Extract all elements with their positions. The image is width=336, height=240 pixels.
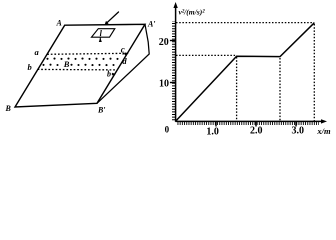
svg-text:B′: B′ [97, 105, 106, 114]
svg-text:A′: A′ [147, 19, 156, 28]
svg-text:x/m: x/m [316, 126, 331, 136]
svg-text:v²/(m/s)²: v²/(m/s)² [179, 8, 206, 17]
svg-text:b: b [28, 62, 32, 72]
svg-text:B: B [63, 59, 70, 69]
svg-text:d: d [122, 56, 127, 66]
svg-text:B: B [5, 104, 12, 113]
svg-text:10: 10 [159, 79, 169, 90]
svg-text:20: 20 [159, 37, 169, 48]
svg-text:1.0: 1.0 [206, 126, 219, 137]
svg-text:c: c [121, 45, 125, 55]
svg-text:2.0: 2.0 [250, 125, 263, 136]
svg-text:3.0: 3.0 [291, 125, 304, 136]
svg-text:0: 0 [165, 124, 170, 134]
svg-text:A: A [56, 19, 63, 28]
svg-text:b: b [107, 70, 111, 79]
